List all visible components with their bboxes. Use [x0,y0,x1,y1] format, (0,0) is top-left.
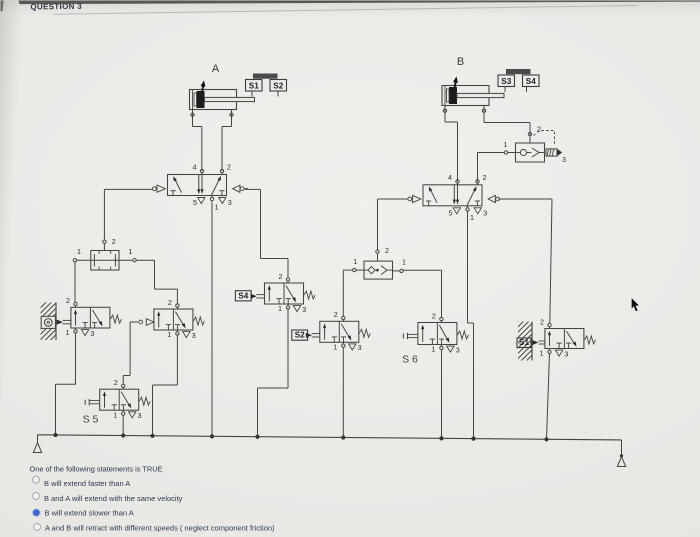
svg-text:3: 3 [456,345,460,354]
svg-text:1: 1 [129,247,133,256]
svg-text:1: 1 [167,330,171,339]
svg-text:One of the following statement: One of the following statements is TRUE [30,464,163,473]
svg-text:2: 2 [385,246,389,255]
svg-text:2: 2 [279,272,283,281]
svg-text:S 6: S 6 [402,354,418,366]
svg-text:3: 3 [564,349,568,358]
svg-text:S4: S4 [238,291,248,300]
svg-text:2: 2 [334,310,338,319]
svg-text:B: B [457,56,464,68]
svg-text:B will extend slower than A: B will extend slower than A [45,509,134,518]
svg-text:S 5: S 5 [83,414,99,426]
svg-text:1: 1 [470,213,474,222]
svg-text:S3: S3 [501,77,511,86]
svg-text:1: 1 [278,304,282,313]
svg-text:3: 3 [302,305,306,314]
svg-text:2: 2 [112,237,116,246]
svg-text:4: 4 [193,163,197,172]
svg-text:A: A [212,63,220,75]
svg-text:B will extend faster than A: B will extend faster than A [44,479,130,488]
svg-text:1: 1 [215,203,219,212]
svg-text:1: 1 [504,140,508,149]
svg-text:B and A will extend with the s: B and A will extend with the same veloci… [44,494,183,503]
svg-text:3: 3 [90,329,94,338]
svg-text:1: 1 [77,247,81,256]
svg-text:3: 3 [228,198,232,207]
svg-text:S4: S4 [526,77,536,86]
svg-text:1: 1 [402,258,406,267]
svg-text:S1: S1 [249,81,259,90]
svg-text:1: 1 [540,349,544,358]
svg-text:1: 1 [431,345,435,354]
svg-text:3: 3 [192,331,196,340]
svg-text:2: 2 [114,378,118,387]
svg-text:3: 3 [358,343,362,352]
svg-text:4: 4 [448,173,452,182]
svg-text:2: 2 [66,296,70,305]
svg-text:2: 2 [227,163,231,172]
svg-text:1: 1 [66,328,70,337]
svg-text:1: 1 [333,343,337,352]
svg-text:3: 3 [483,208,487,217]
svg-text:2: 2 [540,317,544,326]
svg-text:S1: S1 [519,338,529,347]
svg-text:2: 2 [432,311,436,320]
svg-text:3: 3 [138,411,142,420]
svg-text:5: 5 [449,208,453,217]
svg-text:QUESTION 3: QUESTION 3 [30,2,82,12]
svg-text:2: 2 [483,173,487,182]
svg-text:S2: S2 [273,81,283,90]
svg-text:5: 5 [193,198,197,207]
svg-text:1: 1 [113,410,117,419]
svg-text:S2: S2 [295,331,305,340]
svg-text:3: 3 [562,155,566,164]
svg-text:2: 2 [168,298,172,307]
svg-text:1: 1 [353,257,357,266]
svg-text:A and B will retract with diff: A and B will retract with different spee… [45,523,275,532]
